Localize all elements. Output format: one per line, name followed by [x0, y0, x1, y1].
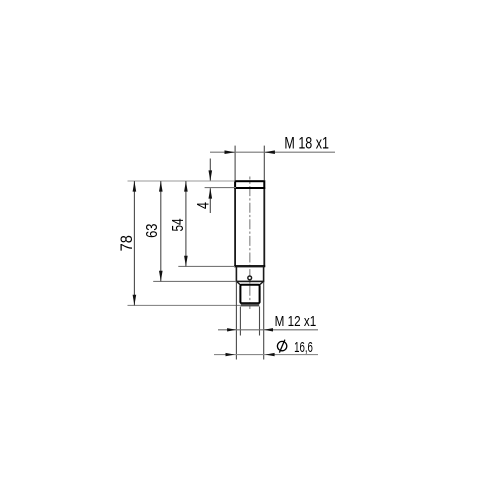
54 extension line (y=266.4) — [178, 265, 235, 267]
sensor top cap (active face) — [235, 181, 264, 188]
sensor barrel M18 body — [235, 188, 264, 266]
dim 4 bottom shaft — [209, 188, 211, 213]
chamfer left — [236, 281, 240, 284]
M12 extension line left — [239, 307, 241, 336]
M18 arrow left — [225, 150, 236, 154]
svg-text:M 18 x1: M 18 x1 — [284, 133, 329, 152]
svg-text:63: 63 — [144, 223, 161, 237]
phi dimension line — [214, 354, 318, 356]
barrel bottom thick edge — [234, 265, 265, 267]
dim 4 bottom arrow (up) — [209, 188, 213, 199]
dim 54 line — [185, 181, 187, 266]
dim 63 label — [144, 223, 161, 237]
dim 63 line — [160, 181, 162, 281]
dim 78 arrow top — [133, 181, 137, 192]
dim 78 line — [133, 181, 135, 305]
M12 connector — [240, 285, 259, 303]
phi16.6 extension line left — [235, 282, 237, 360]
M12 dimension line — [218, 329, 318, 331]
dim 4 label — [194, 202, 213, 209]
svg-text:54: 54 — [170, 218, 187, 231]
dim 4 top shaft — [209, 159, 211, 181]
M12 extension line right — [259, 307, 261, 336]
78 bottom extension line (y=305.4) — [128, 304, 242, 306]
centerline — [249, 177, 251, 310]
M18 arrow right — [264, 150, 275, 154]
dim 54 arrow bottom — [184, 256, 188, 267]
phi arrow right — [265, 353, 274, 356]
svg-text:4: 4 — [194, 202, 213, 209]
M18 extension line left — [234, 146, 236, 180]
dim 78 arrow bottom — [133, 295, 137, 306]
svg-text:78: 78 — [117, 235, 136, 251]
thread relief dark band — [241, 304, 259, 307]
dim 4 top arrow (down) — [209, 170, 213, 181]
svg-text:16,6: 16,6 — [294, 339, 313, 356]
dim 63 arrow bottom — [159, 271, 163, 282]
LED dot — [248, 276, 252, 280]
M18 extension line right — [263, 146, 265, 180]
rear housing — [236, 266, 263, 281]
dim 54 label — [170, 218, 187, 231]
top extension line (y=181) — [128, 180, 236, 182]
dim 63 arrow top — [159, 181, 163, 192]
phi arrow left — [226, 353, 235, 356]
dim 78 label — [117, 235, 136, 251]
body white fills — [235, 181, 264, 266]
svg-text:M 12 x1: M 12 x1 — [275, 314, 317, 330]
phi symbol — [277, 341, 286, 350]
M12 arrow right — [264, 328, 273, 331]
chamfer right — [260, 281, 264, 284]
cap bottom extension line (y=187.6) — [205, 187, 236, 189]
M12 arrow left — [227, 328, 236, 331]
dim 54 arrow top — [184, 181, 188, 192]
63 extension line (y=281.4) — [153, 280, 236, 282]
phi16.6 extension line right — [263, 282, 265, 360]
M18 dimension line — [210, 151, 335, 153]
